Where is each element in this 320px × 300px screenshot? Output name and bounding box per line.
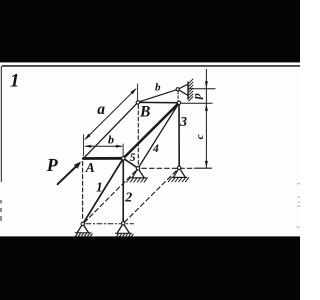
node circle C: [122, 157, 125, 160]
support S2 (pinned, under node near C): [127, 168, 148, 182]
svg-text:1: 1: [10, 71, 20, 92]
svg-text:B: B: [139, 104, 150, 121]
projection dashed A to S1: [82, 162, 84, 221]
dashed diagonal S1 to S2: [84, 170, 137, 223]
page frame left border: [1, 66, 2, 182]
extension line above C: [122, 144, 124, 156]
dash-dot baseline S1 to S2b: [86, 223, 134, 225]
rod AB: [84, 103, 138, 158]
svg-text:3: 3: [179, 114, 187, 129]
projection dashed D to E: [177, 91, 179, 101]
dimension c bottom arrow (down): [205, 161, 208, 168]
node circle S1: [81, 222, 84, 225]
dimension b (horizontal A-C): [84, 145, 123, 148]
beam CE: [123, 103, 179, 158]
node circle S3: [178, 166, 181, 169]
dashed diagonal S2b to S3: [124, 169, 178, 222]
dashed horizontal S2 to S3: [142, 167, 194, 169]
wall pin support at D (top right): [178, 79, 194, 102]
rod 2: [122, 159, 124, 224]
svg-text:c: c: [194, 134, 206, 139]
svg-text:1: 1: [96, 180, 103, 195]
scan bottom black band: [0, 236, 300, 300]
svg-text:d: d: [192, 93, 206, 100]
node circle B: [136, 101, 139, 104]
svg-text:5: 5: [130, 152, 136, 164]
rod 4: [138, 103, 179, 168]
dimension a (long diagonal): [84, 88, 137, 140]
right dimension column: reference line at D level: [189, 88, 216, 90]
support S1 (pinned, bottom-left): [75, 224, 93, 237]
force P arrow: [58, 162, 82, 185]
support S3 (pinned, under rod 3): [168, 168, 189, 182]
rod 5: [123, 158, 138, 168]
rod BE: [138, 101, 179, 103]
scan top black band: [0, 0, 300, 62]
figure number 1: [10, 71, 20, 92]
dimension d arrow (down, above D level): [205, 81, 208, 88]
projection dashed B to S2: [137, 105, 139, 166]
reference line at S3 level: [194, 167, 212, 169]
dimension c top arrow (up, below E level): [205, 104, 208, 111]
rod BD: [138, 89, 178, 102]
svg-text:P: P: [46, 155, 59, 175]
svg-text:4: 4: [152, 143, 159, 155]
node circle E: [177, 101, 180, 104]
right edge faint ticks: [297, 183, 301, 228]
svg-text:b: b: [108, 133, 114, 147]
svg-text:A: A: [85, 160, 95, 175]
node circle D: [176, 88, 179, 91]
svg-text:2: 2: [124, 191, 132, 206]
beam AC: [83, 157, 123, 160]
reference line at E level: [181, 102, 213, 104]
dimension vertical line: [205, 69, 207, 168]
svg-text:a: a: [97, 101, 105, 118]
support S2b (pinned, bottom-middle): [115, 223, 133, 237]
extension line above B: [137, 84, 139, 101]
rod 3: [178, 103, 180, 168]
extension line above A: [83, 134, 85, 156]
rod 1: [83, 159, 123, 224]
svg-text:b: b: [155, 82, 161, 94]
page frame top border: [2, 65, 300, 67]
node circle S2: [136, 167, 139, 170]
node circle S2b: [122, 222, 125, 225]
